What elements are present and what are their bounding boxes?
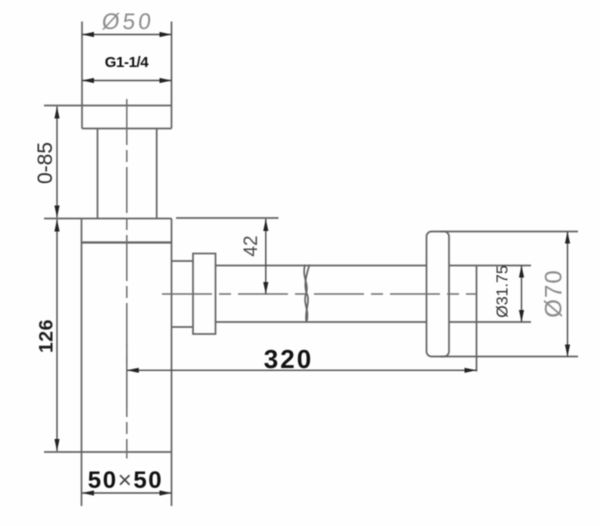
pipe break line 1: [304, 265, 307, 323]
320 dimension line: [127, 369, 477, 371]
dia70 arrows: [565, 232, 570, 244]
dia50 arrows: [82, 32, 94, 37]
body left side: [81, 219, 83, 507]
svg-text:126: 126: [36, 319, 58, 353]
wall flange (rounded): [427, 232, 450, 357]
50x50 dimension line: [82, 492, 172, 494]
top flange right side: [171, 22, 173, 129]
G1-1/4 dimension line: [82, 80, 172, 82]
svg-text:0-85: 0-85: [34, 142, 57, 184]
svg-text:50×50: 50×50: [88, 467, 163, 494]
dia31.75 arrows: [519, 266, 524, 278]
phi70 bottom extension: [440, 356, 578, 358]
body top / left extension: [44, 218, 172, 220]
outlet stub top: [172, 260, 194, 262]
126 dimension line: [56, 220, 58, 452]
50x50 arrows: [82, 490, 94, 495]
svg-text:42: 42: [241, 235, 262, 256]
320 arrows: [127, 368, 139, 373]
neck pipe right: [156, 129, 158, 219]
compression nut: [193, 254, 216, 335]
svg-text:Ø31.75: Ø31.75: [494, 265, 511, 318]
outlet stub bottom: [172, 326, 194, 328]
lid seam line: [82, 241, 172, 243]
svg-text:Ø70: Ø70: [541, 269, 568, 317]
horizontal centerline: [162, 293, 477, 295]
horizontal pipe bottom: [216, 321, 427, 323]
vertical centerline: [126, 99, 128, 459]
dia50 dimension line: [82, 34, 172, 36]
centerline solid segment at 320 dim: [126, 344, 128, 408]
dia31.75 dimension line: [521, 266, 523, 323]
pipe end / 320 right extension: [476, 266, 478, 372]
42 dimension line: [265, 219, 267, 294]
neck pipe left: [97, 129, 99, 219]
0-85 dimension line: [56, 107, 58, 218]
pipe break line 2: [305, 265, 309, 323]
body right side: [171, 219, 173, 507]
top flange left side: [81, 22, 83, 129]
body bottom / left extension: [44, 451, 172, 453]
flange inner line / 0-85 top extension: [44, 105, 172, 107]
horizontal pipe top: [216, 265, 427, 267]
42 arrows: [263, 219, 268, 231]
G1-1/4 arrows: [82, 78, 94, 83]
phi70 top extension: [440, 231, 578, 233]
svg-text:Ø50: Ø50: [101, 9, 156, 34]
42 top extension: [176, 217, 279, 219]
svg-text:G1-1/4: G1-1/4: [105, 54, 150, 71]
dia70 dimension line: [567, 232, 569, 357]
0-85 arrows: [54, 107, 59, 119]
126 arrows: [54, 220, 59, 232]
svg-text:320: 320: [264, 344, 313, 374]
flange bottom: [82, 128, 172, 130]
